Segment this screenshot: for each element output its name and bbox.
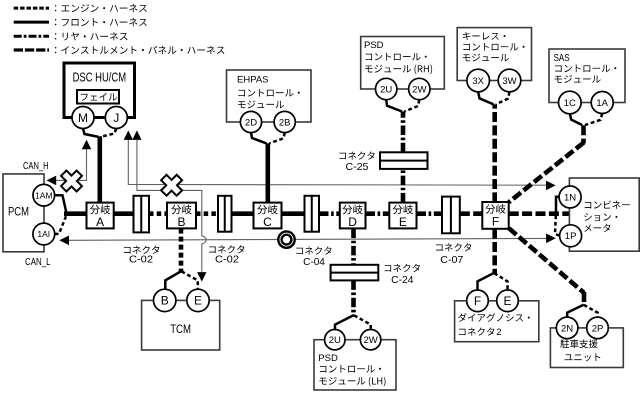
- label connector C-24: [385, 264, 420, 272]
- svg-text:C-07: C-07: [440, 255, 463, 266]
- svg-text:M: M: [78, 111, 88, 125]
- wire TCM B stub (solid): [165, 271, 181, 290]
- connector symbol between C and D: [305, 196, 320, 232]
- wire branch B down to TCM split (engine): [179, 229, 184, 272]
- label connector C-02b: [209, 245, 244, 253]
- module box SAS control module: [549, 49, 625, 103]
- svg-text:C-25: C-25: [346, 162, 369, 173]
- branch box F (bunki F): [482, 202, 508, 229]
- wire branch C to connector3 (front): [282, 211, 305, 216]
- svg-text:C-02: C-02: [215, 254, 239, 265]
- wire PSD-RH 2U stub (solid): [386, 100, 402, 112]
- terminal 1P of meter: [560, 225, 582, 247]
- connector C-02b symbol: [218, 196, 232, 232]
- svg-text:1AM: 1AM: [35, 190, 52, 200]
- svg-text:1C: 1C: [564, 98, 576, 109]
- svg-text:2P: 2P: [592, 323, 604, 334]
- svg-text:E: E: [399, 215, 407, 229]
- wire PSD-RH 2W stub (dashed): [405, 100, 420, 112]
- wire branch E to connector C-07 (rear): [417, 211, 443, 216]
- svg-text:D: D: [348, 215, 357, 229]
- svg-text:A: A: [96, 215, 104, 229]
- wire hop of thin DSC-J-to-TCM wire over 1AI-to-1P wire: [202, 236, 206, 243]
- wire DSC J stub (dashed): [101, 129, 117, 137]
- svg-text:2U: 2U: [380, 84, 392, 95]
- svg-text:2D: 2D: [245, 117, 257, 128]
- legend front-harness label: [55, 18, 147, 26]
- wire connector C-02a to branch B (engine): [149, 211, 167, 216]
- svg-text:F: F: [492, 214, 499, 228]
- svg-text:2: 2: [496, 327, 501, 338]
- module box DSC HU/CM: [64, 63, 135, 118]
- terminal 3X of keyless: [467, 69, 490, 92]
- terminal 2D of EHPAS: [240, 111, 261, 132]
- legend rear-harness label: [55, 32, 128, 40]
- wire SAS 1C stub (solid): [570, 114, 583, 125]
- module box parking assist unit: [550, 328, 623, 368]
- arrow right into meter 1P: [546, 234, 556, 244]
- label connector C-07: [436, 243, 471, 251]
- svg-text:TCM: TCM: [170, 322, 191, 336]
- legend instrument-panel-harness line sample: [14, 48, 49, 51]
- module box EHPAS control module: [227, 70, 312, 122]
- wire parking 2P stub (dashed): [584, 305, 598, 317]
- wire thin CAN_H PCM-to-DSC segment: [56, 149, 87, 181]
- svg-text:2B: 2B: [279, 117, 291, 128]
- wire PCM 1AM stub (solid): [55, 195, 67, 212]
- svg-text:E: E: [503, 294, 511, 308]
- wire diagnosis E stub (dashed): [494, 273, 507, 290]
- wire branch F to combination meter (instrument): [509, 211, 569, 216]
- terminal 2N of parking unit: [556, 317, 578, 339]
- terminal 2W of PSD LH: [360, 330, 380, 350]
- svg-text:3X: 3X: [472, 76, 484, 87]
- svg-text:SAS: SAS: [554, 53, 570, 64]
- twist mark X near PCM 1AM: [56, 165, 87, 196]
- svg-text:1P: 1P: [565, 231, 577, 242]
- label connector C-25: [339, 151, 374, 159]
- svg-text:C-02: C-02: [129, 255, 153, 266]
- label connector C-02a: [124, 246, 159, 254]
- svg-text:CAN_H: CAN_H: [23, 160, 49, 172]
- module box PSD control module RH: [361, 37, 445, 90]
- wire branch E up to connector C-25 (rear): [401, 169, 406, 203]
- svg-text:CAN_L: CAN_L: [25, 256, 51, 268]
- legend engine-harness label: [55, 4, 147, 12]
- terminal 2W of PSD RH: [409, 78, 430, 99]
- svg-text:2U: 2U: [329, 335, 341, 346]
- arrow up into DSC J joint (left): [124, 130, 133, 140]
- terminal 1N of meter: [559, 186, 581, 208]
- svg-text:PSD: PSD: [318, 353, 338, 364]
- wire branch D down to connector C-24 (rear): [351, 229, 356, 265]
- svg-text:2W: 2W: [412, 84, 426, 95]
- svg-text:1N: 1N: [564, 192, 576, 203]
- wire EHPAS merge down to branch C (front): [265, 143, 270, 202]
- svg-text:E: E: [194, 294, 202, 308]
- wire parking unit vertical (instrument): [582, 292, 587, 306]
- svg-text:B: B: [161, 294, 169, 308]
- svg-text:2N: 2N: [561, 323, 573, 334]
- wire branch B to connector C-02b (engine): [196, 211, 218, 216]
- wire TCM E stub (dashed): [182, 271, 198, 289]
- wire PSD-LH 2U stub (solid): [335, 315, 354, 330]
- legend instrument-panel-harness label: [55, 46, 225, 54]
- wire keyless 3X stub (solid): [478, 92, 493, 104]
- branch box C (bunki C): [254, 203, 282, 229]
- svg-text:C-24: C-24: [391, 275, 414, 286]
- terminal F of diagnosis: [467, 290, 489, 312]
- wire connector C-02b to branch C (front): [232, 211, 254, 216]
- terminal 1A of SAS: [591, 92, 613, 114]
- wire connector3 to branch D (rear): [319, 211, 340, 216]
- wire SAS diagonal down to branch F (instrument): [509, 143, 584, 203]
- branch box A (bunki A): [87, 203, 114, 229]
- module box keyless control module: [457, 28, 531, 81]
- wire parking 2N stub (solid): [567, 305, 584, 318]
- connector C-07 symbol: [442, 197, 460, 234]
- arrow up into DSC M joint: [82, 140, 91, 150]
- wire branch F down to diagnosis split (instrument): [492, 229, 497, 274]
- svg-text:F: F: [474, 294, 481, 308]
- fail lamp box (feiru): [77, 90, 119, 104]
- wire branch A to connector C-02a (front): [114, 211, 134, 216]
- svg-text:3W: 3W: [502, 76, 516, 87]
- arrow into PCM 1AM: [47, 176, 57, 186]
- wire SAS merge vertical (instrument): [581, 125, 586, 143]
- module box PCM: [3, 174, 44, 252]
- svg-text:1AI: 1AI: [37, 229, 50, 239]
- module box PSD control module LH: [314, 340, 396, 390]
- svg-text:DSC HU/CM: DSC HU/CM: [73, 71, 127, 85]
- legend front-harness line sample: [14, 21, 49, 24]
- wire thin DSC J to TCM E lower part: [201, 244, 203, 272]
- wire bus start to branch A (front harness): [64, 211, 87, 216]
- module box TCM: [142, 300, 220, 350]
- terminal 2P of parking unit: [587, 317, 609, 339]
- terminal 1C of SAS: [559, 91, 582, 114]
- svg-text:J: J: [113, 111, 119, 125]
- terminal 1AI of PCM: [33, 223, 55, 245]
- wire meter 1N stub (solid): [556, 197, 560, 212]
- wire connector C-24 down to PSD LH split (rear): [351, 280, 356, 316]
- wire diagnosis F stub (solid): [478, 273, 495, 290]
- twist mark X near branch B: [156, 170, 187, 201]
- terminal J of DSC: [105, 107, 127, 129]
- wire thin DSC J to combination-meter 1N: [128, 140, 546, 185]
- wire PCM 1AI stub (dashed): [55, 216, 66, 234]
- legend engine-harness line sample: [14, 7, 49, 10]
- label connector C-04: [296, 246, 331, 254]
- arrow right into meter 1N: [546, 181, 556, 191]
- arrow up into DSC J joint (right): [132, 130, 141, 140]
- wire branch F up to keyless merge (instrument): [492, 104, 497, 202]
- arrow left into PCM 1AI: [59, 236, 69, 246]
- legend rear-harness line sample: [14, 35, 49, 38]
- wire EHPAS 2B stub (dashed): [269, 133, 284, 144]
- svg-text:PSD: PSD: [364, 40, 384, 51]
- wire connector C-07 to branch F (instrument): [460, 211, 483, 216]
- svg-text:PCM: PCM: [8, 204, 29, 218]
- grommet double-circle connector C-04: [278, 231, 294, 247]
- svg-text:EHPAS: EHPAS: [237, 74, 269, 85]
- wire connector C-25 up to PSD RH merge (rear): [401, 111, 406, 152]
- svg-text:C: C: [263, 215, 272, 229]
- terminal 2U of PSD RH: [376, 78, 397, 99]
- wire meter 1P stub (dashed): [555, 215, 560, 235]
- branch box D (bunki D): [340, 203, 366, 229]
- arrow down into TCM E: [197, 272, 206, 282]
- wire DSC M stub (solid): [83, 129, 99, 137]
- wire keyless 3W stub (dashed): [496, 92, 510, 104]
- wire SAS 1A stub (dashed): [585, 114, 602, 126]
- connector C-24 symbol: [331, 265, 379, 281]
- terminal M of DSC: [72, 107, 94, 129]
- branch box E (bunki E): [389, 203, 416, 229]
- wire EHPAS 2D stub (solid): [251, 133, 267, 144]
- wire thin DSC J to TCM E: [137, 140, 202, 236]
- wire DSC merge down to branch A (front): [98, 136, 103, 202]
- svg-text:C-04: C-04: [303, 257, 325, 268]
- svg-text:B: B: [177, 215, 185, 229]
- branch box B (bunki B): [167, 203, 196, 229]
- wire thin PCM 1AI to meter 1P: [69, 238, 546, 240]
- svg-text:2W: 2W: [363, 335, 377, 346]
- wire PSD-LH 2W stub (dashed): [354, 315, 371, 330]
- module box diagnosis connector 2: [455, 301, 539, 342]
- connector C-02a symbol: [134, 196, 150, 233]
- connector C-25 symbol: [380, 152, 428, 169]
- svg-text:1A: 1A: [596, 98, 608, 109]
- terminal 2U of PSD LH: [325, 330, 345, 350]
- terminal E of diagnosis: [497, 290, 519, 312]
- module box combination meter: [569, 178, 639, 251]
- terminal 1AM of PCM: [33, 184, 55, 206]
- terminal 3W of keyless: [498, 69, 521, 92]
- terminal B of TCM: [154, 289, 176, 311]
- wire branch F diagonal down to parking unit (instrument): [509, 228, 584, 293]
- terminal 2B of EHPAS: [274, 111, 295, 132]
- terminal E of TCM: [187, 289, 209, 311]
- wire branch D to branch E (rear): [366, 211, 390, 216]
